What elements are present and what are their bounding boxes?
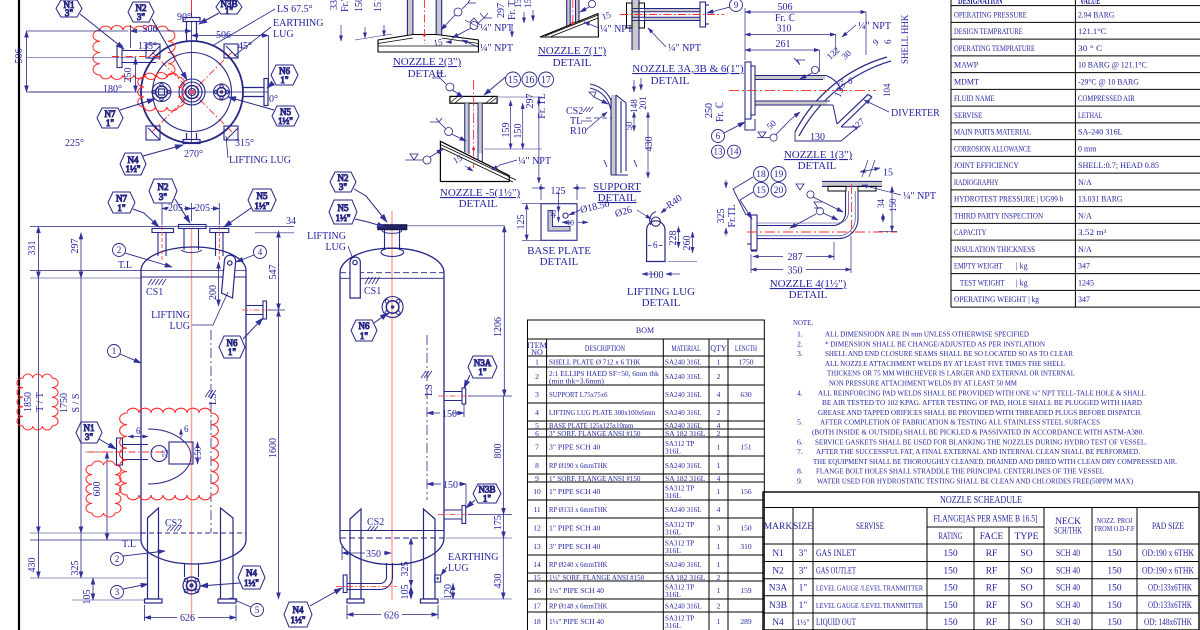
svg-text:8.: 8. — [797, 467, 803, 476]
svg-text:SERVISE: SERVISE — [856, 522, 884, 532]
svg-text:1: 1 — [717, 542, 721, 551]
svg-text:ALL DIMENSIODN ARE IN mm UNLES: ALL DIMENSIODN ARE IN mm UNLESS OTHERWIS… — [825, 330, 1029, 339]
revision cloud around N1 nozzle — [93, 26, 175, 80]
circled 15 16 17 — [484, 72, 554, 95]
svg-text:1: 1 — [717, 487, 721, 496]
svg-text:1½": 1½" — [126, 164, 141, 174]
svg-text:SHELL:0.7; HEAD 0.85: SHELL:0.7; HEAD 0.85 — [1078, 161, 1159, 170]
svg-text:1: 1 — [717, 358, 721, 367]
svg-text:3" PIPE SCH 40: 3" PIPE SCH 40 — [549, 542, 601, 551]
svg-text:AFTER COMPLETION OF FABRICATIO: AFTER COMPLETION OF FABRICATION & TESTIN… — [820, 418, 1100, 427]
svg-text:¼" NPT: ¼" NPT — [903, 191, 936, 202]
svg-text:1": 1" — [799, 584, 808, 594]
svg-text:6: 6 — [535, 429, 539, 438]
svg-text:1245: 1245 — [1078, 279, 1094, 288]
T.L line extending left — [30, 270, 141, 272]
diverter plates — [837, 94, 872, 127]
svg-text:150: 150 — [888, 198, 898, 212]
svg-text:1½": 1½" — [336, 213, 351, 223]
hole — [563, 213, 568, 218]
1600 dim right — [278, 310, 280, 599]
svg-text:Ø18.50: Ø18.50 — [579, 199, 610, 216]
svg-text:¼" NPT: ¼" NPT — [480, 23, 513, 34]
drain nozzle bottom — [185, 564, 199, 577]
svg-text:16: 16 — [533, 586, 541, 595]
hexagons N2 N5 + leaders — [330, 172, 387, 222]
dim ref line to 1206 — [407, 225, 504, 227]
svg-text:SCH 40: SCH 40 — [1056, 584, 1080, 594]
svg-text:-29°C @ 10 BARG: -29°C @ 10 BARG — [1078, 78, 1139, 87]
svg-text:N3B: N3B — [769, 601, 787, 611]
svg-text:SCH/THK: SCH/THK — [1054, 527, 1082, 537]
item callouts — [108, 244, 267, 617]
svg-text:GAS OUTLET: GAS OUTLET — [816, 567, 856, 577]
svg-text:SA 182 316L: SA 182 316L — [665, 429, 706, 438]
svg-text:6: 6 — [136, 426, 141, 436]
svg-text:4.: 4. — [797, 388, 803, 397]
nozzle N6 0deg right flange — [243, 79, 268, 106]
red centerline — [620, 14, 724, 16]
svg-text:3.: 3. — [797, 349, 803, 358]
svg-text:1½": 1½" — [796, 618, 809, 627]
svg-text:NOZZLE 3A,3B & 6(1"): NOZZLE 3A,3B & 6(1") — [632, 63, 744, 75]
svg-text:4: 4 — [717, 505, 721, 514]
pads — [828, 186, 876, 191]
svg-text:SUPPORT L75x75x6: SUPPORT L75x75x6 — [549, 390, 608, 399]
BOM data rows — [533, 358, 754, 630]
svg-text:1750: 1750 — [59, 393, 70, 413]
svg-text:1": 1" — [483, 494, 492, 504]
shell body — [340, 248, 444, 564]
pipe walls — [465, 103, 469, 153]
svg-text:RF: RF — [986, 567, 998, 577]
svg-text:3" SORF. FLANGE ANSI #150: 3" SORF. FLANGE ANSI #150 — [549, 429, 641, 438]
red centerline — [572, 0, 574, 28]
svg-text:325: 325 — [70, 561, 81, 576]
hexagon N3A — [464, 356, 497, 388]
hexagon N6 + leader — [219, 318, 263, 358]
svg-text:310: 310 — [777, 24, 792, 35]
svg-text:NO: NO — [531, 348, 543, 357]
svg-text:FROM O.D-F.F: FROM O.D-F.F — [1095, 525, 1135, 533]
nozzle schedule header row — [764, 515, 1184, 543]
hexagon N6 + leader — [351, 313, 388, 341]
svg-text:325: 325 — [400, 562, 411, 577]
svg-text:316L: 316L — [665, 447, 681, 456]
hexagon callout N1 — [56, 0, 124, 49]
drain piping with elbow — [343, 563, 392, 593]
svg-text:316L: 316L — [665, 621, 681, 630]
svg-text:LEVEL GAUGE /LEVEL TRANMITTER: LEVEL GAUGE /LEVEL TRANMITTER — [816, 602, 923, 610]
hexagon callout N6 — [267, 65, 298, 88]
svg-text:316L: 316L — [665, 528, 681, 537]
svg-text:SA240 316L: SA240 316L — [665, 602, 702, 611]
svg-text:3": 3" — [799, 549, 808, 559]
svg-text:4: 4 — [717, 390, 721, 399]
svg-text:135°: 135° — [138, 41, 157, 52]
svg-text:2: 2 — [535, 372, 539, 381]
svg-text:310: 310 — [740, 542, 752, 551]
svg-text:N6: N6 — [359, 321, 370, 331]
top nozzle neck — [381, 228, 404, 257]
svg-text:JOINT EFFICIENCY: JOINT EFFICIENCY — [954, 161, 1019, 170]
N3B nozzle — [444, 506, 466, 524]
287 dim — [753, 242, 834, 260]
red centerline — [473, 80, 475, 168]
svg-text:N5: N5 — [338, 203, 349, 213]
svg-text:18: 18 — [533, 617, 541, 626]
svg-text:13: 13 — [714, 147, 724, 157]
svg-text:1½" PIPE SCH 40: 1½" PIPE SCH 40 — [549, 586, 604, 595]
svg-text:DETAIL: DETAIL — [408, 68, 447, 80]
drain bolted flange — [183, 577, 200, 594]
svg-text:1750: 1750 — [739, 358, 754, 367]
svg-text:SA240 316L: SA240 316L — [665, 408, 702, 417]
svg-text:150: 150 — [442, 409, 457, 420]
svg-text:SCH 40: SCH 40 — [1056, 601, 1080, 611]
N1 nozzle clouded detail — [117, 429, 194, 484]
vertical centerline through circle — [191, 21, 193, 144]
top nozzle N2 (center) — [179, 225, 207, 253]
svg-text:RP Ø190 x 6mmTHK: RP Ø190 x 6mmTHK — [549, 461, 608, 470]
svg-text:COMPRESSED AIR: COMPRESSED AIR — [1078, 94, 1135, 103]
svg-text:SO: SO — [1020, 618, 1032, 628]
svg-text:BE AIR TESTED TO 102 KPAG. AFT: BE AIR TESTED TO 102 KPAG. AFTER TESTING… — [822, 398, 1142, 407]
svg-text:LETHAL: LETHAL — [1078, 111, 1102, 120]
svg-text:OD:133x6THK: OD:133x6THK — [1148, 601, 1192, 611]
svg-text:FLANGE BOLT HOLES SHALL STRADD: FLANGE BOLT HOLES SHALL STRADDLE THE PRI… — [816, 467, 1104, 476]
svg-text:DETAIL: DETAIL — [540, 256, 579, 268]
svg-text:LIFTING LUG PLATE 300x100x6mm: LIFTING LUG PLATE 300x100x6mm — [549, 408, 655, 417]
svg-text:GREASE AND TAPPED ORIFICES SHA: GREASE AND TAPPED ORIFICES SHALL BE PROV… — [818, 408, 1142, 417]
svg-text:EARTHING: EARTHING — [448, 552, 499, 563]
svg-text:150: 150 — [943, 567, 958, 577]
dims 148 201 50 430 — [634, 78, 648, 178]
N6 nozzle right side — [246, 301, 267, 319]
detail dims — [128, 429, 198, 464]
svg-text:3: 3 — [115, 587, 120, 597]
svg-text:16: 16 — [525, 75, 535, 86]
red vertical centerline — [391, 211, 393, 600]
svg-text:150: 150 — [193, 446, 203, 460]
hexagon callout N4 — [120, 145, 183, 175]
svg-text:3": 3" — [137, 12, 146, 22]
svg-text:ALL NOZZLE ATTACHMENT WELDS BY: ALL NOZZLE ATTACHMENT WELDS BY AT LEAST … — [825, 359, 1065, 368]
svg-text:130: 130 — [810, 132, 825, 143]
svg-text:14: 14 — [730, 147, 740, 157]
325 and 105 dims — [410, 538, 412, 599]
support lug 225deg — [146, 126, 160, 140]
svg-text:LUG: LUG — [169, 321, 190, 332]
svg-text:105: 105 — [400, 585, 411, 600]
svg-text:1": 1" — [106, 118, 115, 128]
150 dim under N3A — [427, 404, 464, 417]
svg-text:4: 4 — [717, 474, 721, 483]
svg-text:EARTHING: EARTHING — [273, 18, 324, 29]
svg-text:SA240 316L: SA240 316L — [665, 372, 702, 381]
svg-text:50: 50 — [765, 118, 779, 132]
svg-text:6: 6 — [184, 424, 189, 434]
svg-text:DETAIL: DETAIL — [651, 75, 690, 87]
svg-text:DIVERTER: DIVERTER — [891, 108, 940, 119]
svg-text:QTY: QTY — [710, 344, 727, 353]
svg-text:RP Ø240 x 6mmTHK: RP Ø240 x 6mmTHK — [549, 560, 608, 569]
svg-text:17: 17 — [541, 75, 551, 86]
red cloud around 1850 — [17, 374, 58, 430]
svg-text:201: 201 — [638, 96, 648, 110]
svg-text:(min thk=3.6mm): (min thk=3.6mm) — [549, 378, 605, 386]
hexagon N1 + leader — [76, 422, 116, 449]
svg-text:OD:133x6THK: OD:133x6THK — [1148, 584, 1192, 594]
svg-text:FLUID NAME: FLUID NAME — [954, 94, 995, 103]
L angle inside — [548, 211, 570, 232]
svg-text:MDMT: MDMT — [954, 78, 979, 87]
svg-text:315°: 315° — [235, 138, 254, 149]
svg-text:OPERATING WEIGHT | kg: OPERATING WEIGHT | kg — [954, 295, 1039, 304]
red centerline — [424, 0, 426, 44]
support lug 135deg — [146, 44, 160, 58]
weld leaders — [405, 73, 466, 164]
center nozzle concentric circles — [179, 79, 205, 105]
pipe horizontal — [645, 9, 701, 12]
svg-text:1": 1" — [228, 347, 237, 357]
svg-text:1: 1 — [112, 346, 117, 356]
head plate + pad — [378, 35, 479, 53]
vessel outer shell circle — [141, 41, 243, 143]
hexagon N4 bottom left + leader — [284, 588, 342, 627]
svg-text:6.: 6. — [797, 437, 803, 446]
hole — [651, 217, 660, 226]
svg-text:100: 100 — [649, 270, 664, 281]
svg-text:SHELL PLATE Ø 712 x 6 THK: SHELL PLATE Ø 712 x 6 THK — [549, 358, 641, 367]
LS line — [210, 330, 212, 533]
svg-text:10: 10 — [533, 487, 541, 496]
svg-text:MAIN PARTS MATERIAL: MAIN PARTS MATERIAL — [954, 128, 1031, 137]
svg-text:WATER USED FOR HYDROSTATIC TES: WATER USED FOR HYDROSTATIC TESTING SHALL… — [817, 477, 1133, 486]
svg-text:1½" SORF. FLANGE ANSI #150: 1½" SORF. FLANGE ANSI #150 — [549, 573, 644, 582]
svg-text:T.L: T.L — [118, 260, 132, 271]
svg-text:PAD SIZE: PAD SIZE — [1152, 522, 1184, 532]
svg-text:125: 125 — [551, 186, 566, 197]
hexagon callout N7 — [97, 99, 155, 128]
LS line — [426, 335, 428, 500]
lug weld ticks — [148, 46, 238, 140]
svg-text:156: 156 — [740, 487, 752, 496]
205/205 dim — [162, 203, 219, 225]
svg-text:325: 325 — [716, 209, 727, 224]
svg-text:¼" NPT: ¼" NPT — [480, 43, 513, 54]
svg-text:N4: N4 — [293, 605, 304, 615]
N3A nozzle — [444, 388, 466, 404]
svg-text:BOM: BOM — [636, 326, 654, 335]
svg-text:Ø26: Ø26 — [614, 205, 634, 220]
weld leader — [580, 0, 596, 12]
svg-text:TYPE: TYPE — [1015, 532, 1039, 542]
svg-text:MATERIAL: MATERIAL — [671, 344, 700, 353]
svg-text:2: 2 — [717, 372, 721, 381]
CS1 weld hashes + label — [148, 279, 166, 285]
reinforcing pads — [627, 3, 645, 28]
svg-text:LUG: LUG — [273, 29, 294, 40]
shell wall horizontal — [822, 181, 882, 186]
svg-text:SA-240 316L: SA-240 316L — [1078, 128, 1123, 137]
left dim chain — [30, 227, 148, 601]
svg-text:OPERATING PRESSURE: OPERATING PRESSURE — [954, 11, 1027, 20]
svg-text:150: 150 — [943, 601, 958, 611]
svg-text:Fr.T: Fr.T — [340, 0, 351, 12]
dim labels — [14, 24, 231, 83]
svg-text:VALUE: VALUE — [1080, 0, 1100, 7]
svg-text:1206: 1206 — [493, 317, 504, 337]
svg-text:Fr. ℂ: Fr. ℂ — [715, 102, 726, 122]
N5 bolted flange (right) — [214, 84, 230, 100]
shell curve — [590, 84, 614, 110]
svg-text:350: 350 — [788, 266, 803, 277]
svg-text:121.1°C: 121.1°C — [1078, 27, 1106, 36]
support angle — [611, 95, 616, 175]
svg-text:180°: 180° — [103, 84, 122, 95]
svg-text:THICKENS OR 75 MM WHICHEVER IS: THICKENS OR 75 MM WHICHEVER IS LARGER AN… — [827, 369, 1075, 378]
svg-text:N2: N2 — [772, 567, 784, 577]
svg-text:159: 159 — [501, 123, 512, 138]
svg-text:316L: 316L — [665, 491, 681, 500]
svg-text:N4: N4 — [246, 568, 257, 578]
350 dim — [751, 236, 851, 273]
svg-text:LENGTH: LENGTH — [735, 344, 757, 353]
svg-text:289: 289 — [740, 617, 752, 626]
svg-text:2.: 2. — [797, 339, 803, 348]
pipe — [567, 0, 571, 25]
svg-text:630: 630 — [740, 390, 752, 399]
svg-text:1½": 1½" — [255, 201, 270, 211]
svg-text:6: 6 — [848, 76, 853, 86]
svg-text:LIQUID OUT: LIQUID OUT — [816, 618, 856, 628]
svg-text:547: 547 — [268, 265, 279, 280]
svg-text:LS 67.5°: LS 67.5° — [277, 4, 313, 15]
red diagonal centerlines — [152, 52, 232, 132]
svg-text:150: 150 — [1107, 601, 1122, 611]
svg-text:1½": 1½" — [291, 615, 306, 625]
nozzle schedule data rows — [769, 549, 1194, 628]
left dims 150/151 — [341, 25, 392, 41]
svg-text:2: 2 — [717, 429, 721, 438]
svg-text:EMPTY WEIGHT: EMPTY WEIGHT — [954, 262, 1003, 271]
svg-text:NOZZLE 7(1"): NOZZLE 7(1") — [538, 45, 607, 57]
svg-text:15: 15 — [533, 573, 541, 582]
svg-text:316L: 316L — [665, 590, 681, 599]
600 dim + red cloud — [106, 452, 108, 540]
svg-text:150: 150 — [943, 584, 958, 594]
svg-text:¼" NPT: ¼" NPT — [518, 156, 551, 167]
svg-text:T.L: T.L — [122, 539, 136, 550]
svg-text:1½": 1½" — [244, 578, 259, 588]
legs — [350, 509, 435, 599]
CS1 hashes + label — [365, 277, 380, 284]
svg-text:250: 250 — [704, 103, 715, 118]
svg-text:297: 297 — [525, 94, 536, 109]
svg-text:| kg: | kg — [1016, 279, 1028, 288]
svg-text:5: 5 — [255, 605, 260, 615]
top view dimensions — [27, 12, 269, 92]
svg-text:OD:190 x 6THK: OD:190 x 6THK — [1142, 567, 1194, 577]
svg-text:LS: LS — [208, 393, 219, 405]
weld leaders — [757, 58, 819, 141]
top head — [141, 247, 246, 270]
svg-text:270°: 270° — [184, 149, 203, 160]
bottom head — [141, 540, 246, 564]
svg-text:* DIMENSION SHALL BE CHANGE/AD: * DIMENSION SHALL BE CHANGE/ADJUSTED AS … — [825, 339, 1045, 348]
red vertical centerline — [191, 228, 193, 621]
svg-text:NOZZLE SCHEADULE: NOZZLE SCHEADULE — [940, 494, 1022, 506]
svg-text:4: 4 — [258, 247, 263, 257]
svg-text:N5: N5 — [257, 191, 268, 201]
svg-text:DESIGN TEMPRATURE: DESIGN TEMPRATURE — [954, 27, 1023, 36]
table grid — [951, 0, 1200, 307]
svg-text:9: 9 — [734, 0, 739, 10]
sloped head + pad — [540, 14, 599, 38]
svg-text:S / S: S / S — [71, 394, 82, 413]
svg-text:3.52 m³: 3.52 m³ — [1078, 228, 1107, 237]
weld symbol — [589, 92, 608, 104]
svg-text:316L: 316L — [665, 546, 681, 555]
svg-text:1": 1" — [117, 203, 126, 213]
plate with rounded top — [647, 221, 665, 262]
svg-text:N/A: N/A — [1078, 178, 1092, 187]
svg-text:MAWP: MAWP — [954, 61, 979, 70]
svg-text:261: 261 — [776, 39, 791, 50]
svg-text:250: 250 — [123, 68, 134, 83]
earthing lug — [435, 575, 441, 582]
N6 bolted flange on shell — [382, 297, 403, 318]
svg-text:9: 9 — [871, 37, 881, 48]
svg-text:105: 105 — [82, 590, 93, 605]
circled 6 13 14 — [712, 122, 746, 158]
svg-text:150: 150 — [513, 124, 524, 139]
svg-text:AFTER THE SUCCESSFUL FAT, A FI: AFTER THE SUCCESSFUL FAT, A FINAL EXTERN… — [816, 447, 1140, 456]
svg-text:SA240 316L: SA240 316L — [665, 358, 702, 367]
svg-text:120: 120 — [443, 584, 454, 599]
svg-text:TEST WEIGHT: TEST WEIGHT — [960, 279, 1005, 288]
shell wall vertical — [632, 0, 639, 50]
svg-text:FLANGE[AS PER ASME B 16.5]: FLANGE[AS PER ASME B 16.5] — [934, 515, 1038, 525]
svg-text:150: 150 — [740, 524, 752, 533]
svg-text:Fr. ℂ: Fr. ℂ — [775, 13, 795, 24]
svg-text:1": 1" — [478, 367, 487, 377]
shell body — [141, 247, 246, 564]
svg-text:34: 34 — [876, 199, 886, 209]
lifting lug on head — [350, 257, 360, 298]
svg-text:1": 1" — [799, 601, 808, 611]
svg-text:GAS INLET: GAS INLET — [816, 549, 856, 559]
weld leaders — [441, 0, 492, 38]
svg-text:150: 150 — [1107, 549, 1122, 559]
svg-text:150: 150 — [1107, 567, 1122, 577]
svg-text:RP Ø148 x 6mmTHK: RP Ø148 x 6mmTHK — [549, 602, 608, 611]
svg-text:7: 7 — [535, 443, 539, 452]
svg-text:NECK: NECK — [1055, 517, 1081, 527]
svg-text:LIFTING: LIFTING — [151, 310, 190, 321]
svg-text:15: 15 — [600, 9, 612, 22]
hexagon N7 above elev1 — [108, 192, 159, 227]
svg-text:SHELL HHK: SHELL HHK — [900, 14, 910, 64]
red centerline — [729, 89, 876, 91]
base ticks — [604, 160, 637, 167]
svg-text:297: 297 — [70, 239, 81, 254]
120 dim — [452, 584, 454, 600]
547 dim right — [268, 231, 285, 310]
support lug 45deg — [224, 44, 238, 58]
flange left — [747, 215, 757, 251]
